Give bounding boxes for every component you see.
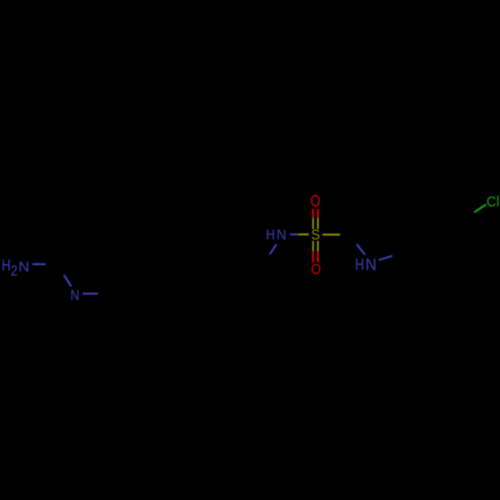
- svg-text:N: N: [277, 226, 287, 242]
- bond C1=N2 imine, N half (blue): [64, 275, 71, 287]
- bond H2N-C1, N half (blue): [32, 263, 45, 265]
- double bond S=O top, line 2, O half (red): [317, 209, 319, 218]
- svg-text:2: 2: [11, 263, 18, 279]
- svg-text:N: N: [365, 257, 376, 274]
- bond C4-N5, N half (blue): [357, 244, 365, 255]
- svg-text:Cl: Cl: [486, 193, 499, 210]
- svg-text:N: N: [18, 258, 29, 275]
- double bond S=O bottom, line 1, S half (olive): [312, 241, 314, 252]
- double bond S=O bottom, line 2, S half (olive): [317, 241, 319, 252]
- svg-text:O: O: [311, 261, 321, 277]
- bond N4-S, S half (olive): [298, 233, 308, 235]
- svg-text:O: O: [310, 193, 320, 211]
- double bond S=O top, line 2, S half (olive): [317, 218, 319, 229]
- sulfonamide N-H label (center HN): [266, 226, 286, 243]
- amine group H2N label: [2, 257, 30, 279]
- double bond S=O bottom, line 1, O half (red): [312, 251, 314, 262]
- bond N4-S, N half (blue): [290, 233, 298, 235]
- svg-text:N: N: [70, 287, 79, 303]
- svg-text:H: H: [355, 256, 364, 274]
- bond N4-CH2 chain, N half (blue): [270, 244, 277, 254]
- double bond S=O bottom, line 2, O half (red): [317, 251, 319, 262]
- svg-text:H: H: [2, 257, 11, 275]
- double bond S=O top, line 1, S half (olive): [312, 218, 314, 229]
- bond N5-C6 aryl, N half (blue): [379, 256, 393, 260]
- bond C8-Cl, Cl half (green): [474, 204, 486, 212]
- bond S-C4, S half (olive): [323, 234, 341, 236]
- ring N-H label (right HN): [355, 256, 376, 274]
- bond N2-C3, N half (blue): [83, 293, 98, 295]
- double bond S=O top, line 1, O half (red): [312, 209, 314, 218]
- svg-text:H: H: [266, 227, 275, 243]
